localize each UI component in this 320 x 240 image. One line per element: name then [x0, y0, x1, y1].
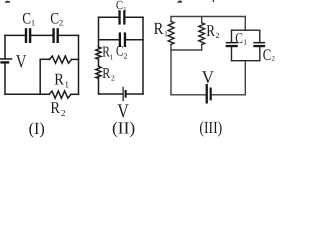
- svg-text:V: V: [202, 67, 214, 87]
- resistor R1 (I): [50, 56, 72, 63]
- wire cap box right lower (III): [259, 47, 261, 61]
- svg-text:C: C: [263, 47, 271, 64]
- label C2 (I): [50, 11, 63, 28]
- svg-text:1: 1: [65, 79, 70, 89]
- wire bottom rail right segment (I): [71, 93, 79, 95]
- wire top rail (III): [171, 16, 245, 18]
- label R1 (III): [154, 19, 168, 39]
- wire bottom rail right segment (II): [127, 93, 143, 95]
- wire bottom rail left segment (II): [99, 93, 123, 95]
- label V (II): [117, 100, 129, 122]
- label V (III): [202, 67, 214, 87]
- wire C2 branch right segment (II): [126, 39, 143, 41]
- svg-text:2: 2: [216, 31, 220, 40]
- wire top rail middle segment (I): [31, 34, 52, 36]
- wire right stem upper (III): [244, 17, 246, 31]
- svg-text:C: C: [116, 44, 123, 60]
- wire inner branch left stub (I): [40, 58, 49, 60]
- svg-text:1: 1: [109, 52, 113, 61]
- wire junction horizontal (III): [171, 49, 202, 51]
- svg-text:2: 2: [123, 52, 127, 61]
- resistor R2 (III): [199, 23, 205, 45]
- wire right rail (II): [142, 17, 144, 94]
- label (II): [112, 119, 135, 138]
- svg-text:R: R: [54, 69, 64, 88]
- wire cap box right upper (III): [259, 30, 261, 42]
- svg-text:1: 1: [123, 6, 126, 13]
- wire left rail lower (II): [98, 78, 100, 94]
- svg-text:2: 2: [61, 108, 66, 118]
- capacitor C2 (I): [52, 28, 59, 43]
- capacitor C1 (I): [25, 28, 32, 43]
- label C1 (II): [116, 0, 127, 13]
- svg-text:R: R: [154, 19, 164, 38]
- battery V (I): [0, 58, 12, 63]
- wire R2 bottom stub (III): [201, 45, 203, 51]
- wire top rail right segment (I): [59, 34, 79, 36]
- resistor R1 (II): [96, 47, 101, 60]
- wire cap box left upper (III): [231, 30, 233, 42]
- wire left rail upper (I): [4, 35, 6, 58]
- wire bottom rail right segment (III): [212, 94, 246, 96]
- label (III): [199, 118, 222, 137]
- svg-text:R: R: [102, 66, 110, 82]
- wire left rail upper stub (III): [170, 17, 172, 22]
- wire R2 top stub (III): [201, 17, 203, 23]
- resistor R2 (I): [49, 91, 71, 98]
- svg-text:2: 2: [111, 74, 115, 83]
- svg-text:1: 1: [31, 17, 35, 27]
- label R2 (III): [206, 21, 219, 40]
- wire bottom rail left segment (III): [171, 94, 206, 96]
- resistor R2 (II): [96, 66, 101, 78]
- wire top rail right segment (II): [126, 16, 143, 18]
- svg-text:(II): (II): [112, 119, 135, 138]
- capacitor C2 (II): [119, 32, 126, 47]
- wire top rail left segment (II): [99, 16, 119, 18]
- wire C2 branch left segment (II): [99, 39, 119, 41]
- capacitor C2 (III): [253, 42, 265, 47]
- svg-text:C: C: [50, 11, 59, 28]
- label C1 (III): [235, 31, 247, 47]
- label (I): [29, 119, 45, 138]
- svg-text:C: C: [22, 11, 31, 28]
- svg-text:(III): (III): [199, 118, 222, 137]
- wire left rail middle (II): [98, 59, 100, 66]
- stray glyph bottom top-left: [5, 1, 10, 3]
- label R1 (I): [54, 69, 69, 89]
- label C2 (II): [116, 44, 127, 61]
- wire left rail upper (II): [98, 17, 100, 47]
- wire cap box top (III): [232, 29, 260, 31]
- wire right stem lower (III): [244, 61, 246, 95]
- wire bottom rail left segment (I): [5, 93, 49, 95]
- svg-text:1: 1: [243, 37, 247, 46]
- svg-text:V: V: [16, 51, 27, 72]
- stray glyph bottom 2 above circuit III: [177, 0, 182, 2]
- resistor R1 (III): [168, 21, 174, 44]
- wire inner branch vertical (I): [39, 59, 41, 94]
- label R2 (II): [102, 66, 115, 83]
- label V (I): [16, 51, 27, 72]
- wire left rail lower (I): [4, 64, 6, 95]
- label R1 (II): [102, 44, 113, 61]
- label C1 (I): [22, 11, 35, 28]
- svg-text:R: R: [206, 21, 215, 40]
- svg-text:1: 1: [164, 30, 168, 39]
- svg-text:(I): (I): [29, 119, 45, 138]
- svg-text:R: R: [50, 98, 60, 117]
- wire right rail (I): [78, 35, 80, 94]
- wire left rail lower (III): [170, 45, 172, 95]
- svg-text:C: C: [116, 0, 123, 12]
- capacitor C1 (II): [118, 10, 125, 24]
- label R2 (I): [50, 98, 65, 118]
- wire top rail left segment (I): [5, 34, 25, 36]
- wire inner branch right stub (I): [72, 58, 79, 60]
- wire cap box left lower (III): [231, 47, 233, 61]
- svg-text:C: C: [235, 31, 243, 47]
- stray tick above C-block: [213, 0, 214, 2]
- svg-text:2: 2: [59, 17, 63, 27]
- svg-text:2: 2: [271, 55, 275, 63]
- battery V (II): [123, 87, 127, 102]
- capacitor C1 (III): [226, 42, 238, 47]
- battery V (III): [206, 84, 212, 104]
- label C2 (III): [263, 47, 276, 64]
- wire cap box bottom (III): [232, 60, 260, 62]
